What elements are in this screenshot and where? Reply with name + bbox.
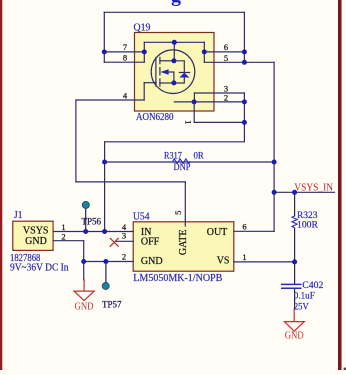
wire inner right vertical Q19 (203, 42, 205, 62)
wire far right vertical VSYS_IN rail (273, 62, 275, 231)
body diode triangle Q19 (179, 73, 189, 78)
resistor R317 zigzag (173, 159, 191, 164)
op-amp U54 body (133, 222, 234, 271)
test point TP57 (102, 283, 109, 290)
svg-text:GND: GND (75, 301, 94, 312)
connector J1 body (13, 221, 53, 250)
frame corner mark bottom right (344, 368, 346, 370)
svg-text:2: 2 (224, 92, 228, 102)
svg-text:8: 8 (123, 53, 127, 63)
mosfet drain vertical Q19 (173, 42, 175, 61)
no connect X on U54 pin3 (110, 238, 119, 247)
wire inner left vertical Q19 (143, 42, 145, 62)
svg-text:3: 3 (122, 230, 126, 240)
svg-text:TP56: TP56 (82, 217, 102, 227)
wire R317 net (105, 161, 275, 163)
wire U54 OUT (234, 230, 274, 232)
svg-text:100R: 100R (297, 220, 319, 230)
wire gate inner horizontal Q19 (144, 82, 156, 84)
svg-text:VS: VS (217, 256, 230, 267)
wire TP57 stem (105, 262, 107, 284)
svg-text:0R: 0R (194, 151, 205, 161)
wire GND stem (83, 262, 85, 281)
wire R323 bottom (294, 228, 296, 262)
svg-text:0.1uF: 0.1uF (294, 291, 315, 301)
svg-text:2: 2 (122, 252, 126, 262)
mosfet arrow head Q19 (160, 69, 168, 75)
svg-text:2: 2 (61, 231, 65, 241)
wire right outer vertical drain (243, 12, 245, 62)
wire GND net to U54 (84, 261, 134, 263)
mosfet channel dashes Q19 (159, 57, 161, 86)
wire gate route horizontal (76, 181, 185, 183)
wire VSYS_IN net (274, 191, 334, 193)
body diode outline Q19 (174, 61, 189, 83)
mosfet circle Q19 (151, 50, 195, 94)
wire pin3 to source inside Q19 (193, 93, 195, 102)
wire pin4 gate Q19 (76, 99, 144, 101)
ground symbol GND C402 (284, 309, 304, 332)
wire pin1 stub Q19 (193, 102, 195, 123)
wire U54 OFF stub (116, 240, 133, 242)
svg-text:J1: J1 (14, 210, 23, 221)
wire C402 top (294, 262, 296, 284)
wire pin2 source line Q19 (174, 101, 244, 103)
wire pin3 corner to pin2 outside (243, 93, 245, 102)
svg-text:6: 6 (224, 42, 228, 52)
svg-text:GND: GND (285, 331, 304, 342)
svg-text:Q19: Q19 (134, 22, 151, 33)
wire C402 bottom (294, 288, 296, 309)
svg-text:6: 6 (242, 222, 246, 232)
wire top rail drain (104, 11, 244, 13)
wire gate route vertical (75, 100, 77, 182)
wire J1 pin2 down (83, 241, 85, 262)
wire J1 pin1 to U54 IN (53, 231, 133, 233)
wire pin6 Q19 (204, 51, 244, 53)
wire source vertical down right (243, 102, 245, 142)
sheet border right (338, 0, 342, 370)
svg-text:C402: C402 (302, 281, 323, 291)
svg-text:25V: 25V (294, 302, 309, 312)
wire left vertical to pins 7 8 (103, 12, 105, 62)
resistor R323 zigzag (292, 216, 297, 228)
wire left mid vertical VSYS rail (104, 142, 106, 232)
svg-text:LM5050MK-1/NOPB: LM5050MK-1/NOPB (133, 273, 222, 284)
wire gate route to U54 pin5 (184, 182, 186, 226)
svg-text:5: 5 (173, 211, 183, 215)
svg-text:R323: R323 (297, 211, 318, 221)
sheet border left (0, 0, 2, 370)
mosfet gate bar Q19 (155, 58, 157, 87)
capacitor C402 plates (281, 284, 302, 288)
mosfet bulk line Q19 (168, 72, 174, 83)
svg-text:5: 5 (224, 53, 228, 63)
wire R323 top (294, 192, 296, 216)
svg-text:OUT: OUT (207, 227, 228, 238)
sheet margin right (342, 0, 346, 370)
mosfet source horizontal Q19 (160, 82, 174, 84)
test point TP56 (82, 201, 89, 208)
svg-text:DNP: DNP (174, 163, 191, 173)
ground symbol GND J1 (74, 279, 94, 301)
mosfet drain horizontal Q19 (160, 60, 174, 62)
wire pin1 horizontal (194, 121, 244, 123)
wire J1 pin2 (53, 240, 84, 242)
svg-text:U54: U54 (133, 212, 150, 223)
wire pin7 Q19 (104, 51, 144, 53)
wire inner top rail Q19 (144, 41, 204, 43)
transistor Q19 body (135, 33, 215, 112)
svg-text:1: 1 (242, 252, 246, 262)
svg-text:7: 7 (123, 42, 127, 52)
wire TP56 stem (85, 207, 87, 232)
svg-text:OFF: OFF (141, 236, 160, 247)
wire pin3 Q19 (194, 92, 244, 94)
svg-text:VSYS: VSYS (23, 226, 49, 237)
svg-text:9V~36V DC In: 9V~36V DC In (10, 263, 69, 274)
svg-text:GND: GND (25, 236, 47, 247)
svg-text:GND: GND (141, 256, 163, 267)
svg-text:GATE: GATE (178, 230, 189, 256)
svg-text:VSYS_IN: VSYS_IN (294, 181, 333, 193)
svg-text:g: g (171, 0, 181, 6)
wire source bottom horizontal (105, 141, 245, 143)
svg-text:AON6280: AON6280 (136, 112, 174, 123)
svg-text:TP57: TP57 (102, 301, 122, 311)
svg-text:1: 1 (184, 120, 194, 124)
wire pin8 Q19 (104, 61, 144, 63)
wire U54 VS to R323 (234, 261, 295, 263)
wire gate inner vertical Q19 (143, 83, 145, 100)
svg-text:R317: R317 (164, 151, 182, 161)
wire pin5 Q19 (204, 61, 274, 63)
